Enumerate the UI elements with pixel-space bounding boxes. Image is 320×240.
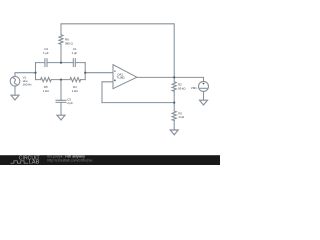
- VM1 internal needle: [200, 87, 207, 89]
- node right / minus: [84, 72, 86, 74]
- watermark bar: [0, 155, 220, 166]
- ground below R3: [170, 130, 178, 135]
- wire output: [137, 77, 204, 81]
- wire junction to R3: [173, 103, 175, 111]
- svg-text:2 µF: 2 µF: [67, 101, 73, 105]
- wire V1 to ground: [14, 86, 16, 95]
- svg-text:1 kΩ: 1 kΩ: [178, 115, 185, 119]
- ground below VM1: [200, 100, 208, 105]
- resistor R2: [172, 82, 176, 91]
- wire right node to op-amp minus: [85, 72, 113, 74]
- resistor R6: [59, 35, 63, 45]
- capacitor C1: [73, 59, 75, 67]
- wire twin-T left bar: [35, 63, 37, 80]
- voltmeter VM1 circle: [199, 81, 209, 91]
- capacitor C2: [45, 59, 47, 67]
- wire R2 to junction: [173, 91, 175, 103]
- svg-text:99 kΩ: 99 kΩ: [178, 86, 186, 90]
- wire R6 to top rail: [60, 44, 62, 62]
- wire twin-T right bar: [84, 63, 86, 80]
- node output / R2: [173, 76, 175, 78]
- op-amp minus mark: [114, 70, 116, 72]
- svg-text:VM1: VM1: [191, 86, 197, 90]
- svg-text:http://circuitlab.com/c/9hx2vu: http://circuitlab.com/c/9hx2vu: [47, 158, 92, 162]
- op-amp OA2 triangle: [113, 65, 137, 89]
- wire R3 to ground: [173, 121, 175, 131]
- wire bottom mid to C3: [60, 80, 62, 101]
- resistor R5: [41, 78, 52, 82]
- svg-text:980 Ω: 980 Ω: [65, 41, 73, 45]
- svg-text:1 kΩ: 1 kΩ: [72, 89, 79, 93]
- ground below C3: [57, 115, 65, 120]
- svg-text:LAB: LAB: [29, 160, 40, 165]
- wire top feedback: [61, 24, 174, 78]
- svg-text:TL082: TL082: [117, 76, 125, 80]
- op-amp plus mark: [114, 79, 116, 81]
- node bottom rail / C3: [60, 79, 62, 81]
- wire VM1 to ground: [203, 92, 205, 101]
- VM1 plus mark: [203, 83, 205, 85]
- wire C3 to ground: [60, 102, 62, 115]
- svg-text:1 µF: 1 µF: [43, 51, 49, 55]
- wire twin-T top rail: [36, 62, 86, 64]
- junction dots: [34, 62, 175, 104]
- wire feedback bottom: [102, 102, 174, 104]
- node top rail / R6: [60, 62, 62, 64]
- ground below V1: [11, 95, 19, 100]
- svg-text:1 kΩ: 1 kΩ: [43, 89, 50, 93]
- svg-text:1 µF: 1 µF: [72, 51, 78, 55]
- resistor R4: [70, 78, 81, 82]
- V1 sine squiggle: [13, 78, 16, 85]
- node feedback / R2 R3: [173, 102, 175, 104]
- wire R2 top: [173, 77, 175, 81]
- wire twin-T bottom rail: [36, 79, 86, 81]
- capacitor C3: [56, 100, 66, 102]
- logo square wave: [11, 161, 29, 163]
- svg-text:160 Hz: 160 Hz: [23, 82, 33, 86]
- wire op-amp plus input: [102, 82, 113, 103]
- source V1 circle: [10, 76, 20, 86]
- wire V1 to left node: [15, 73, 36, 77]
- node left input: [34, 72, 36, 74]
- resistor R3: [172, 111, 176, 121]
